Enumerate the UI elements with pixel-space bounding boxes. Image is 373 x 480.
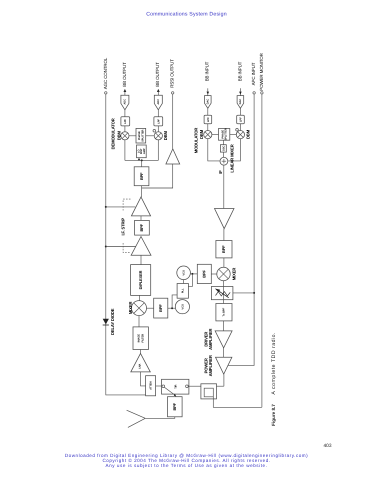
wire antenna feed [145, 417, 175, 419]
DAC (Q channel) [237, 96, 244, 109]
svg-text:ADC: ADC [157, 99, 160, 105]
terminal BB INPUT (I) [205, 61, 210, 95]
wire AGC control line [106, 94, 146, 395]
wire image filter to LNA [140, 350, 142, 354]
terminal BB OUTPUT (I) [122, 62, 127, 92]
svg-text:MODULATOR: MODULATOR [194, 128, 199, 154]
node 90 degree port bubble (demod) [153, 130, 156, 133]
svg-text:LPF: LPF [207, 117, 210, 122]
svg-text:DEMODULATOR: DEMODULATOR [111, 118, 116, 149]
oscillator OSC [220, 140, 226, 157]
diplexer [131, 265, 151, 296]
wire linear mixer to TX IF amp [223, 165, 225, 208]
wire Tx BPF to driver amplifier [223, 321, 225, 331]
attenuator variable (APC controlled) [211, 287, 233, 300]
svg-text:RSSI OUTPUT: RSSI OUTPUT [170, 59, 175, 88]
svg-text:MIXER: MIXER [232, 268, 237, 281]
svg-text:T/R: T/R [175, 385, 178, 389]
svg-text:BPF: BPF [172, 402, 177, 410]
svg-text:PLL: PLL [182, 288, 185, 293]
svg-text:LINEAR MIXER: LINEAR MIXER [230, 144, 235, 172]
wire IF amp to demod BPF [141, 186, 143, 197]
wire ADC I to BB OUTPUT arrow [124, 92, 126, 96]
wire LNA to attenuator [141, 372, 146, 386]
svg-text:BPF: BPF [158, 304, 163, 312]
op-amp driver amplifier [204, 328, 233, 349]
LPF (mod Q) [237, 115, 245, 124]
terminal APC INPUT [251, 62, 256, 94]
label I.F. STRIP with dashed bracket [121, 199, 131, 253]
wire IF amp2 to diplexer [140, 255, 142, 264]
wire phase splitter to mod mixer I [212, 134, 219, 136]
node VCO2 output junction [171, 307, 173, 309]
wire BPF to TX mixer [223, 258, 225, 267]
diode delay diode on AGC line [103, 308, 115, 335]
wire mixer I to IF feed line [124, 140, 126, 161]
mixer DBM (demod I) [116, 130, 129, 140]
svg-text:BB OUTPUT: BB OUTPUT [155, 62, 160, 87]
BPF demod IF input [134, 167, 149, 186]
wire T/R to coupler [188, 385, 201, 387]
svg-text:Figure 8.7: Figure 8.7 [271, 404, 276, 426]
wire phase splitter to mixer I [129, 135, 136, 137]
svg-text:OSC: OSC [222, 145, 225, 151]
svg-text:AMPLIFIER: AMPLIFIER [208, 328, 213, 349]
svg-text:LPF: LPF [124, 119, 127, 124]
phase splitter (mod) [219, 128, 230, 140]
svg-text:DBM: DBM [246, 129, 251, 139]
svg-text:DBM: DBM [199, 129, 204, 139]
svg-text:Communications System Design: Communications System Design [146, 11, 227, 17]
node AGC tap to 2nd IF amp [105, 246, 107, 248]
svg-text:Copyright © 2004 The McGraw-Hi: Copyright © 2004 The McGraw-Hill Compani… [102, 458, 270, 463]
mixer DBM (mod I) [199, 129, 212, 139]
svg-text:BB INPUT: BB INPUT [237, 61, 242, 81]
wire RSSI tap [142, 164, 173, 188]
coupler directional coupler [201, 384, 224, 399]
op-amp LNA [131, 353, 151, 372]
mixer DBM (mod Q) [236, 129, 250, 139]
wire LPF I to mixer I [124, 126, 126, 132]
svg-text:IMAGE: IMAGE [137, 334, 140, 343]
wire LPF Q to mixer Q [157, 126, 159, 132]
node AGC tap to IF amp [105, 206, 107, 208]
svg-text:LPF: LPF [239, 117, 242, 122]
phase splitter (demod) [136, 128, 146, 143]
wire coupled port to power monitor line [213, 397, 262, 408]
image filter [133, 327, 148, 350]
terminal BB OUTPUT (Q) [155, 62, 160, 92]
wire RX LO BPF to RX mixer [147, 307, 154, 309]
LO dist amp box (demod) [137, 145, 147, 158]
wire RSSI amp to RSSI OUTPUT [172, 94, 174, 149]
svg-text:LPF: LPF [157, 119, 160, 124]
svg-text:BB OUTPUT: BB OUTPUT [122, 62, 127, 87]
attenuator ATTEN [146, 376, 156, 396]
wire junction to demod IF BPF [141, 160, 143, 166]
svg-text:LNA: LNA [139, 363, 142, 368]
svg-text:AMP: AMP [143, 148, 146, 154]
wire VCO1 to PLL [183, 280, 185, 284]
svg-text:DAC: DAC [206, 99, 209, 105]
svg-text:AMPLIFIER: AMPLIFIER [208, 355, 213, 376]
wire TX LO BPF to TX mixer [211, 273, 217, 275]
mixer RX front-end [128, 301, 147, 316]
op-amp RSSI amplifier [166, 149, 180, 164]
op-amp IF amplifier 1 [131, 197, 150, 216]
oscillator VCO (RX LO) [175, 300, 189, 314]
BPF RX LO filter [154, 298, 168, 318]
wire variable attenuator to Tx BPF [223, 300, 225, 304]
mixer TX upconverter [217, 267, 237, 280]
wire mod mixer I to linear mixer [208, 139, 220, 161]
LPF (mod I) [204, 115, 212, 124]
svg-text:DELAY DIODE: DELAY DIODE [110, 308, 115, 335]
wire diplexer to RX mixer [139, 295, 141, 300]
op-amp TX IF amplifier [215, 209, 235, 229]
svg-text:APC INPUT: APC INPUT [251, 62, 256, 85]
antenna [127, 410, 146, 427]
svg-text:DBM: DBM [116, 130, 121, 140]
terminal BB INPUT (Q) [237, 61, 242, 95]
svg-text:Any use is subject to the Term: Any use is subject to the Terms of Use a… [106, 463, 268, 468]
wire ADC I to LPF I [124, 110, 126, 117]
switch T/R [162, 379, 189, 396]
terminal POWER MONITOR [259, 52, 264, 94]
BPF antenna filter [168, 397, 183, 417]
svg-text:ADC: ADC [124, 99, 127, 105]
svg-text:DBM: DBM [163, 130, 168, 140]
summer linear mixer [220, 144, 235, 172]
svg-text:BPF: BPF [139, 172, 144, 180]
wire DAC Q to LPF [239, 108, 241, 115]
arrow into LO dist amp [138, 158, 140, 160]
wire LPF to mod mixer I [207, 124, 209, 131]
wire mixer Q to IF feed line [157, 140, 159, 161]
wire TX IF amp to BPF [223, 229, 225, 241]
wire POWER MONITOR line [261, 94, 263, 407]
svg-text:I.F. STRIP: I.F. STRIP [121, 218, 126, 236]
wire coupler to power amp [223, 374, 225, 386]
mixer DBM (demod Q) [154, 130, 168, 140]
wire IF amp1 to BPF2 [140, 216, 142, 221]
wire ADC Q to LPF Q [157, 110, 159, 117]
node 90 degree port bubble (mod) [236, 129, 239, 132]
node VCO1 output junction [191, 273, 193, 275]
wire VCO1 feedback to PLL [188, 274, 192, 287]
svg-text:BB INPUT: BB INPUT [205, 61, 210, 81]
wire APC to variable attenuator [233, 292, 254, 294]
svg-text:403: 403 [323, 443, 331, 449]
BPF Tx output filter [216, 304, 232, 321]
wire RX mixer to image filter [138, 316, 140, 327]
svg-text:BPF: BPF [202, 270, 207, 278]
terminal AGC CONTROL [103, 57, 108, 94]
svg-text:DIPLEXER: DIPLEXER [138, 270, 143, 289]
svg-text:POWER MONITOR: POWER MONITOR [259, 52, 264, 90]
wire VCO2 feedback to PLL [172, 295, 177, 308]
DAC (I channel) [205, 96, 212, 109]
svg-text:Tx BPF: Tx BPF [222, 307, 225, 316]
wire phase splitter to mixer Q [146, 135, 155, 137]
wire AGC to 2nd IF amp [106, 246, 136, 248]
wire DAC I to LPF [207, 108, 209, 115]
node APC junction at attenuator [253, 292, 255, 294]
svg-text:IF: IF [218, 170, 223, 174]
wire ADC Q to BB OUTPUT arrow [157, 92, 159, 96]
svg-text:BPF: BPF [139, 223, 144, 231]
oscillator VCO (TX LO) [177, 266, 191, 280]
svg-text:AGC CONTROL: AGC CONTROL [103, 57, 108, 89]
svg-text:VCO: VCO [183, 270, 186, 276]
wire IF feed line under demod mixers [125, 159, 158, 161]
svg-text:VCO: VCO [181, 304, 184, 310]
PLL [177, 284, 188, 299]
wire VCO1 to BPF TX LO [190, 273, 197, 275]
svg-text:A complete TDD radio.: A complete TDD radio. [271, 332, 277, 395]
svg-text:SPLITTER: SPLITTER [225, 128, 228, 140]
wire mod mixer Q to linear mixer [228, 139, 241, 161]
LPF (I channel) [121, 117, 130, 126]
wire TX mixer to variable attenuator [223, 281, 225, 287]
terminal RSSI OUTPUT [170, 59, 175, 94]
wire attenuator to T/R switch [156, 385, 162, 387]
svg-text:MIXER: MIXER [128, 302, 133, 315]
svg-text:DAC: DAC [239, 99, 242, 105]
ADC (Q channel) [154, 95, 162, 110]
op-amp IF amplifier 2 [131, 237, 151, 256]
BPF TX IF filter [216, 241, 232, 258]
BPF TX LO filter [197, 264, 211, 283]
wire APC line [228, 94, 254, 365]
LPF (Q channel) [154, 117, 163, 126]
svg-text:BPF: BPF [221, 245, 226, 253]
svg-text:FILTER: FILTER [141, 334, 144, 343]
wire driver to power amplifier [223, 348, 225, 357]
op-amp power amplifier [204, 355, 232, 376]
wire phase splitter to mod mixer Q [230, 134, 237, 136]
wire AGC to IF amp [106, 206, 136, 208]
svg-text:SPLITTER: SPLITTER [141, 129, 144, 141]
svg-text:ATTEN: ATTEN [150, 381, 153, 389]
node IF feed junction [141, 159, 143, 161]
wire VCO2 to RX LO BPF [168, 307, 176, 309]
BPF IF strip filter [135, 220, 150, 235]
wire LPF to mod mixer Q [239, 124, 241, 131]
ADC (I channel) [121, 95, 129, 110]
